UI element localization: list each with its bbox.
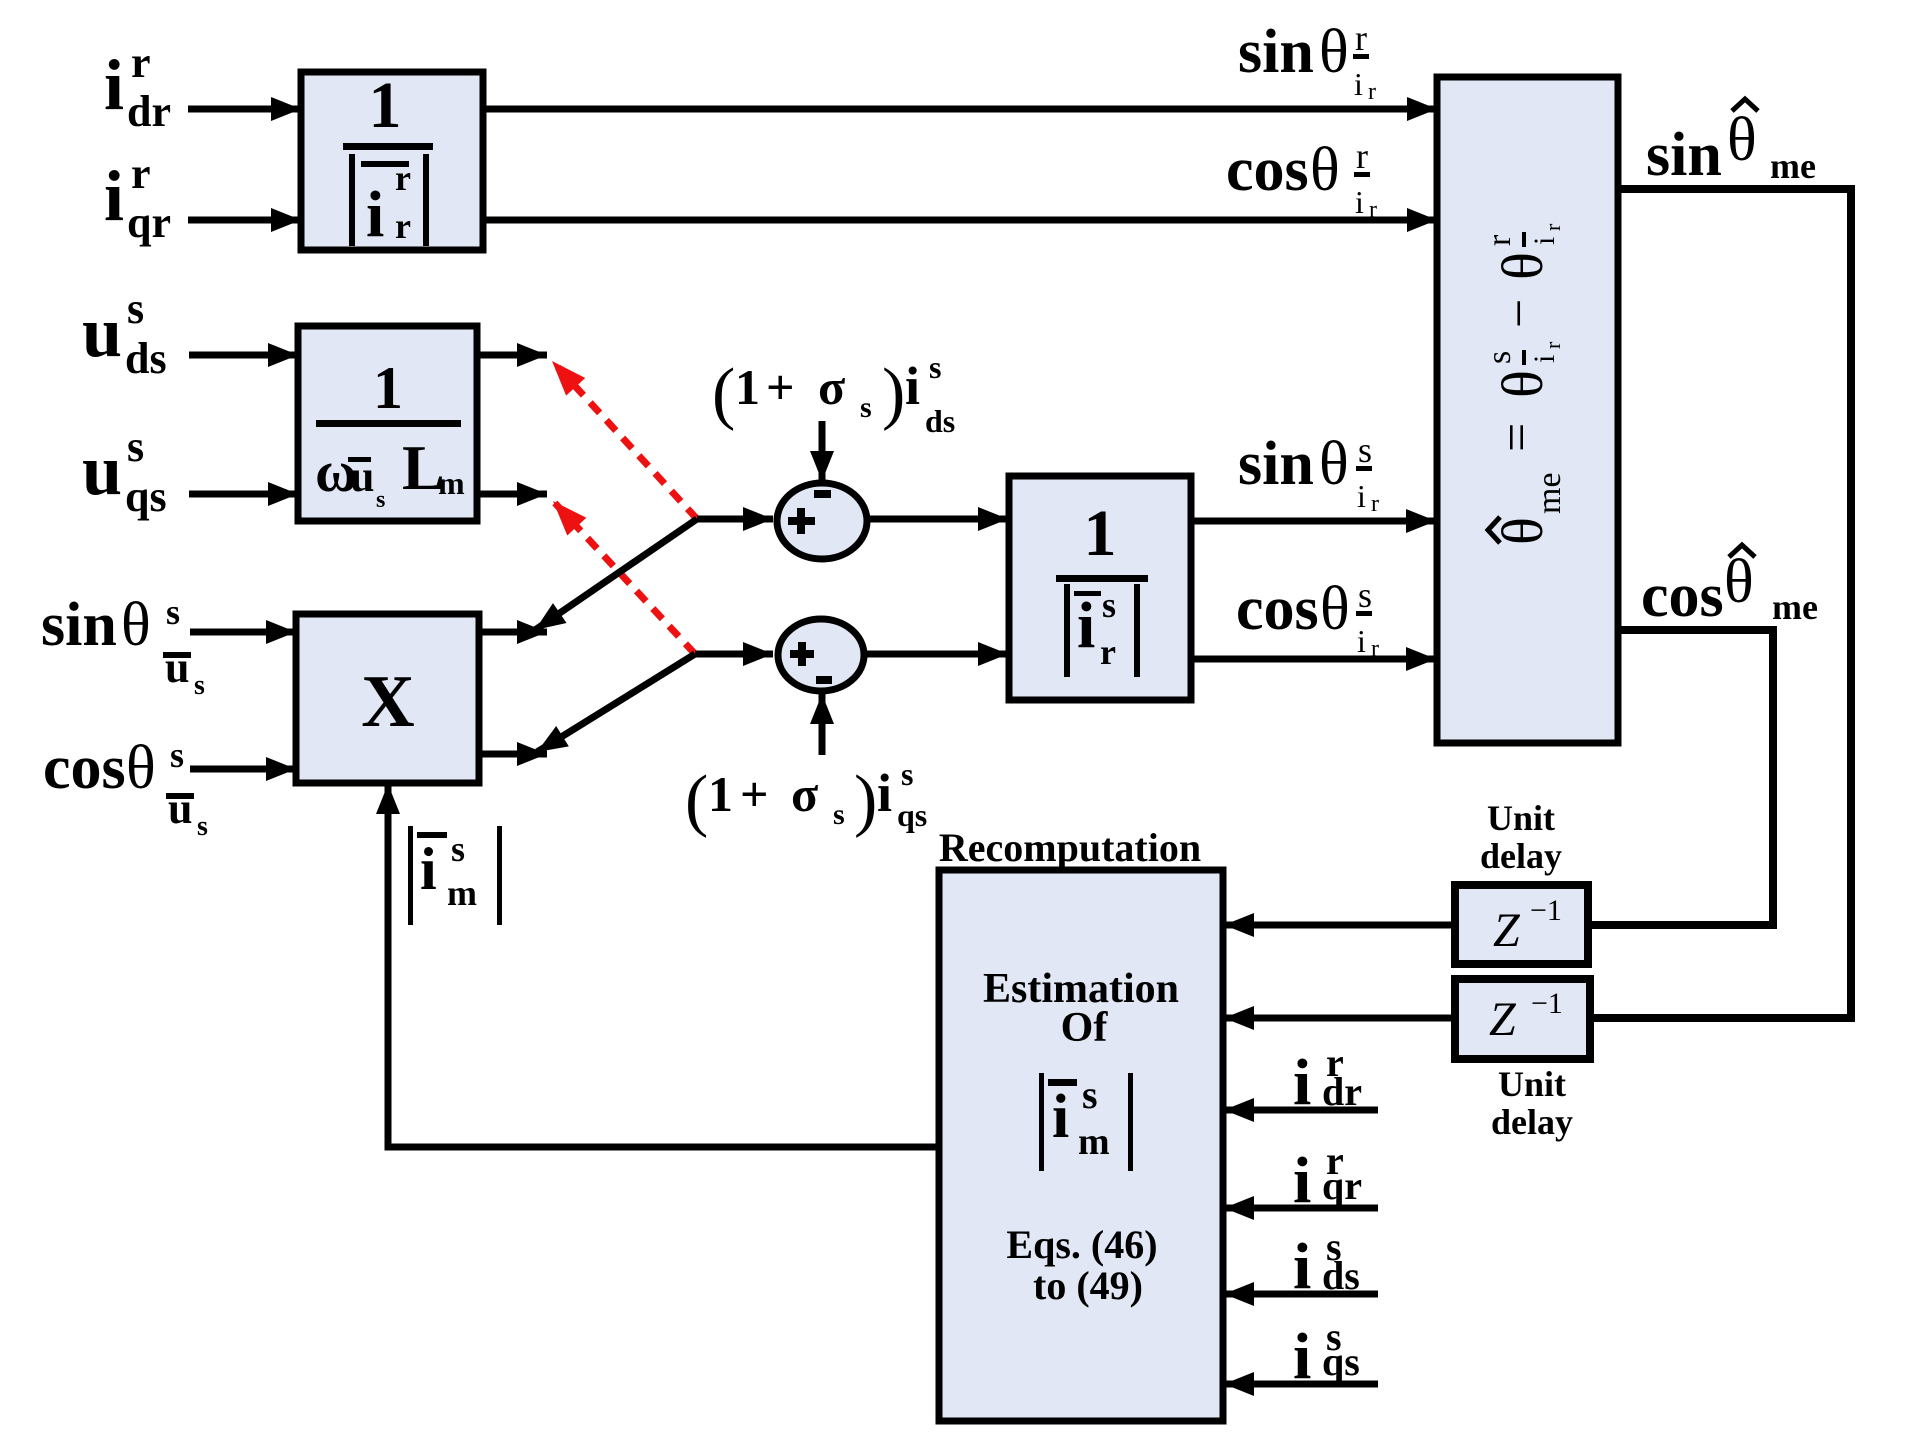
svg-text:cos: cos <box>1641 562 1724 630</box>
svg-text:s: s <box>1082 1072 1098 1117</box>
label Unit delay upper <box>1480 798 1562 876</box>
svg-text:r: r <box>1355 18 1367 58</box>
svg-text:i: i <box>905 356 920 416</box>
svg-text:r: r <box>1481 234 1518 246</box>
svg-text:Z: Z <box>1493 904 1521 957</box>
svg-text:θ: θ <box>1319 430 1349 498</box>
red dashed feedback arrow 2 <box>553 501 695 654</box>
svg-text:(: ( <box>685 762 708 839</box>
svg-text:Of: Of <box>1061 1005 1109 1051</box>
svg-text:−1: −1 <box>1530 894 1562 927</box>
svg-text:Recomputation: Recomputation <box>939 825 1201 870</box>
block 1/(omega_us Lm) <box>298 326 477 521</box>
wire i_ds into recomputation <box>1224 1291 1378 1298</box>
wire i_dr into recomputation <box>1224 1107 1378 1114</box>
wire sin theta_us input arrow <box>190 629 296 636</box>
svg-text:s: s <box>197 811 208 842</box>
wire omega block output 2 <box>477 491 547 498</box>
net label sin theta_ir^s <box>1238 430 1379 517</box>
svg-text:r: r <box>1540 223 1565 231</box>
svg-text:m: m <box>438 465 465 501</box>
svg-text:s: s <box>194 670 205 701</box>
svg-text:m: m <box>1078 1121 1110 1163</box>
red dashed feedback arrow 1 <box>552 361 697 519</box>
svg-text:θ: θ <box>121 591 151 659</box>
value label X inside multiplier block <box>361 661 414 743</box>
svg-text:1: 1 <box>369 69 402 142</box>
svg-text:X: X <box>361 661 414 743</box>
value label theta_me = theta_ir^s - theta_ir^r (rotated) inside angle block <box>1481 223 1568 545</box>
wire (1+sigma)i_qs into summer 2 <box>819 694 826 755</box>
wire junction 1 to summer 1 <box>697 516 773 523</box>
svg-text:σ: σ <box>818 359 845 415</box>
svg-text:i: i <box>1293 1144 1311 1217</box>
node label i_qr^r input <box>104 149 171 247</box>
node label i_ds^s recomputation input <box>1293 1224 1360 1303</box>
svg-text:s: s <box>127 284 144 333</box>
wire unit delay 1 to recomputation <box>1224 922 1455 929</box>
net label cos theta_ir^r <box>1226 136 1377 223</box>
svg-text:i: i <box>1293 1230 1311 1303</box>
svg-text:i: i <box>104 45 124 125</box>
svg-text:i: i <box>877 763 892 823</box>
svg-text:σ: σ <box>791 766 818 822</box>
svg-text:r: r <box>1356 136 1368 176</box>
svg-text:s: s <box>170 735 184 775</box>
svg-text:(: ( <box>712 355 735 432</box>
svg-text:r: r <box>1369 197 1377 223</box>
svg-text:cos: cos <box>1226 136 1309 204</box>
svg-text:1: 1 <box>708 766 733 822</box>
svg-text:i: i <box>1293 1046 1311 1119</box>
svg-text:θ: θ <box>1490 370 1555 398</box>
svg-text:Z: Z <box>1489 993 1517 1046</box>
wire i_dr input arrow <box>188 106 301 113</box>
wire u_ds input arrow <box>189 352 298 359</box>
svg-text:ds: ds <box>125 334 167 383</box>
text inside recomputation block <box>983 966 1179 1308</box>
node label i_qr^r recomputation input <box>1293 1138 1362 1217</box>
svg-text:s: s <box>166 592 180 632</box>
wire X block output 2 <box>479 751 547 758</box>
svg-text:+: + <box>766 359 795 415</box>
wire i_qr into recomputation <box>1224 1205 1378 1212</box>
svg-text:): ) <box>882 355 905 432</box>
wire cos theta_us input arrow <box>190 766 296 773</box>
value label Z^-1 lower <box>1489 987 1563 1046</box>
svg-text:s: s <box>376 487 385 513</box>
svg-text:delay: delay <box>1491 1102 1573 1142</box>
svg-text:s: s <box>127 422 144 471</box>
svg-text:u: u <box>350 452 374 501</box>
svg-text:θ: θ <box>1727 106 1757 174</box>
svg-text:1: 1 <box>373 355 403 421</box>
svg-text:−1: −1 <box>1531 987 1563 1020</box>
node label i_dr^r top-left input <box>104 38 171 136</box>
wire u_qs input arrow <box>189 491 298 498</box>
svg-text:sin: sin <box>41 591 117 659</box>
svg-text:s: s <box>860 391 872 424</box>
svg-text:me: me <box>1531 472 1568 514</box>
svg-text:i: i <box>1357 623 1366 659</box>
svg-text:s: s <box>451 829 465 869</box>
svg-text:i: i <box>1052 1083 1069 1151</box>
value label Z^-1 upper <box>1493 894 1562 957</box>
node label i_dr^r recomputation input <box>1293 1040 1362 1119</box>
block angle estimator theta_me <box>1437 77 1618 743</box>
svg-text:r: r <box>131 38 151 87</box>
svg-text:Unit: Unit <box>1487 798 1555 838</box>
svg-text:θ: θ <box>1319 18 1349 86</box>
svg-text:sin: sin <box>1238 430 1314 498</box>
svg-text:qr: qr <box>1322 1163 1362 1208</box>
node label u_qs^s input <box>82 422 167 521</box>
wire omega block output 1 <box>477 352 547 359</box>
wire sin theta_s to angle block <box>1191 518 1436 525</box>
svg-text:i: i <box>1355 184 1364 220</box>
svg-text:i: i <box>420 836 437 902</box>
label Unit delay lower <box>1491 1064 1573 1142</box>
wire sin theta_r output to angle block <box>483 106 1437 113</box>
svg-text:θ: θ <box>1310 136 1340 204</box>
svg-text:r: r <box>1371 491 1379 517</box>
wire unit delay 2 to recomputation <box>1224 1015 1455 1022</box>
wire junction 2 to summer 2 <box>695 651 773 658</box>
wire cos theta_me feedback <box>1588 630 1773 925</box>
node label i_qs^s recomputation input <box>1293 1314 1360 1393</box>
net label cos theta_ir^s <box>1236 575 1379 662</box>
svg-text:i: i <box>1528 355 1561 363</box>
node label cos theta_us^s input <box>43 734 208 842</box>
svg-text:i: i <box>1077 589 1095 662</box>
svg-text:qs: qs <box>125 472 167 521</box>
svg-text:sin: sin <box>1646 121 1722 189</box>
svg-text:u: u <box>82 430 122 510</box>
block X multiplier <box>296 614 479 783</box>
svg-text:s: s <box>1358 430 1372 470</box>
summing junction S1 <box>777 483 867 559</box>
svg-text:θ: θ <box>1724 548 1754 616</box>
net label sin theta_ir^r <box>1238 18 1376 105</box>
svg-text:s: s <box>1481 351 1518 364</box>
block recomputation estimation of |i_m| <box>939 870 1223 1421</box>
svg-text:r: r <box>395 158 411 198</box>
svg-text:θ: θ <box>126 734 156 802</box>
wire i_qs into recomputation <box>1224 1381 1378 1388</box>
svg-text:to (49): to (49) <box>1033 1263 1143 1308</box>
svg-text:−: − <box>1491 299 1548 328</box>
svg-text:s: s <box>901 756 913 792</box>
cross wire to summer 2 <box>537 654 695 752</box>
wire cos theta_s to angle block <box>1191 656 1436 663</box>
svg-text:r: r <box>1540 341 1565 349</box>
wire sin theta_me feedback <box>1590 189 1851 1018</box>
svg-text:me: me <box>1770 146 1816 186</box>
svg-text:u: u <box>165 643 189 692</box>
net label (1+sigma_s)i_ds^s <box>712 349 955 439</box>
value label 1/|i_r^s| inside magnitude block <box>1056 497 1148 677</box>
value label 1/(omega_us Lm) inside omega block <box>315 355 465 513</box>
svg-text:qs: qs <box>897 797 927 833</box>
svg-text:r: r <box>395 206 411 246</box>
svg-text:u: u <box>82 292 122 372</box>
svg-text:Unit: Unit <box>1498 1064 1566 1104</box>
label Recomputation <box>939 825 1201 870</box>
svg-text:i: i <box>1293 1320 1311 1393</box>
svg-text:dr: dr <box>127 87 171 136</box>
svg-text:u: u <box>168 784 192 833</box>
svg-text:i: i <box>1528 237 1561 245</box>
node label u_ds^s input <box>82 284 167 383</box>
svg-text:s: s <box>1102 585 1116 625</box>
svg-text:ds: ds <box>925 403 955 439</box>
svg-text:i: i <box>366 178 384 251</box>
wire cos theta_r output to angle block <box>483 217 1437 224</box>
wire i_m feedback to X block <box>388 784 939 1147</box>
block 1/|i_r^r| rotor current magnitude <box>301 72 483 250</box>
svg-text:r: r <box>1368 79 1376 105</box>
svg-text:delay: delay <box>1480 836 1562 876</box>
svg-text:me: me <box>1772 587 1818 627</box>
svg-text:r: r <box>131 149 151 198</box>
svg-text:ds: ds <box>1322 1253 1360 1298</box>
svg-text:s: s <box>833 798 845 831</box>
svg-text:i: i <box>1357 478 1366 514</box>
svg-text:r: r <box>1371 636 1379 662</box>
node label sin theta_us^s input <box>41 591 205 701</box>
svg-text:1: 1 <box>1084 497 1117 570</box>
net label sin theta_me output <box>1646 99 1816 189</box>
wire i_qr input arrow <box>188 217 301 224</box>
wire summer 1 to magnitude block <box>867 516 1008 523</box>
svg-text:θ: θ <box>1320 575 1350 643</box>
svg-text:θ: θ <box>1490 252 1555 280</box>
svg-text:Eqs. (46): Eqs. (46) <box>1006 1222 1157 1267</box>
block 1/|i_r^s| stator-frame magnitude <box>1009 476 1191 700</box>
wire (1+sigma)i_ds into summer 1 <box>819 421 826 481</box>
block unit delay Z-1 upper <box>1455 885 1588 964</box>
svg-text:s: s <box>929 349 941 385</box>
svg-text:cos: cos <box>1236 575 1319 643</box>
net label cos theta_me output <box>1641 545 1818 630</box>
svg-text:): ) <box>854 762 877 839</box>
svg-text:m: m <box>447 873 477 913</box>
summing junction S2 <box>778 619 864 691</box>
net label |i_m^s| feedback <box>408 826 502 925</box>
value label 1/|i_r^r| inside top-left block <box>343 69 433 251</box>
svg-text:qr: qr <box>127 198 171 247</box>
svg-text:s: s <box>1358 575 1372 615</box>
cross wire to summer 1 <box>535 519 697 630</box>
svg-text:=: = <box>1489 423 1546 452</box>
svg-text:dr: dr <box>1322 1069 1362 1114</box>
svg-text:+: + <box>740 766 769 822</box>
wire X block output 1 <box>479 629 547 636</box>
block unit delay Z-1 lower <box>1455 979 1590 1059</box>
svg-text:1: 1 <box>735 359 760 415</box>
svg-text:i: i <box>1354 66 1363 102</box>
svg-text:r: r <box>1100 632 1116 672</box>
svg-text:qs: qs <box>1322 1339 1360 1384</box>
net label (1+sigma_s)i_qs^s <box>685 756 927 839</box>
svg-text:sin: sin <box>1238 18 1314 86</box>
wire summer 2 to magnitude block <box>866 651 1008 658</box>
svg-text:i: i <box>104 156 124 236</box>
svg-text:cos: cos <box>43 734 126 802</box>
